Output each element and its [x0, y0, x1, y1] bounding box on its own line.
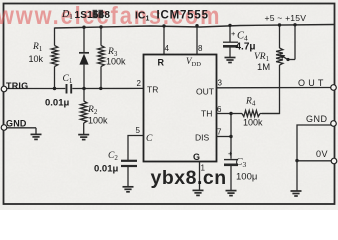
- svg-text:GND: GND: [6, 119, 27, 129]
- svg-text:G: G: [193, 152, 200, 162]
- svg-text:1S1588: 1S1588: [75, 10, 111, 21]
- svg-text:4: 4: [165, 44, 170, 53]
- svg-text:R: R: [158, 58, 165, 68]
- svg-text:TRIG: TRIG: [6, 81, 28, 91]
- svg-text:8: 8: [198, 44, 203, 53]
- svg-text:0.01μ: 0.01μ: [94, 164, 118, 175]
- svg-text:5: 5: [136, 126, 141, 135]
- svg-text:DIS: DIS: [195, 133, 210, 143]
- svg-text:100μ: 100μ: [236, 172, 257, 183]
- svg-text:1M: 1M: [257, 62, 270, 73]
- svg-text:+: +: [231, 29, 236, 38]
- svg-text:2: 2: [137, 79, 142, 88]
- svg-text:100k: 100k: [243, 118, 263, 128]
- svg-text:3: 3: [218, 79, 223, 88]
- svg-text:6: 6: [217, 105, 222, 114]
- svg-text:+: +: [228, 149, 233, 158]
- svg-text:0.01μ: 0.01μ: [45, 98, 69, 109]
- svg-text:0V: 0V: [316, 149, 328, 159]
- svg-text:100k: 100k: [106, 57, 126, 67]
- svg-text:OUT: OUT: [196, 87, 214, 97]
- svg-text:100k: 100k: [88, 116, 108, 126]
- svg-text:OUT: OUT: [298, 78, 327, 88]
- svg-text:TR: TR: [147, 85, 158, 95]
- svg-text:7: 7: [217, 128, 222, 137]
- svg-text:GND: GND: [306, 114, 328, 124]
- svg-text:ybx8.cn: ybx8.cn: [151, 167, 227, 189]
- svg-text:TH: TH: [201, 109, 212, 119]
- svg-text:10k: 10k: [29, 54, 44, 64]
- svg-text:ICM7555: ICM7555: [157, 10, 209, 22]
- svg-text:C: C: [146, 134, 153, 144]
- svg-text:+5 ~ +15V: +5 ~ +15V: [265, 13, 307, 23]
- svg-text:4.7μ: 4.7μ: [236, 42, 256, 53]
